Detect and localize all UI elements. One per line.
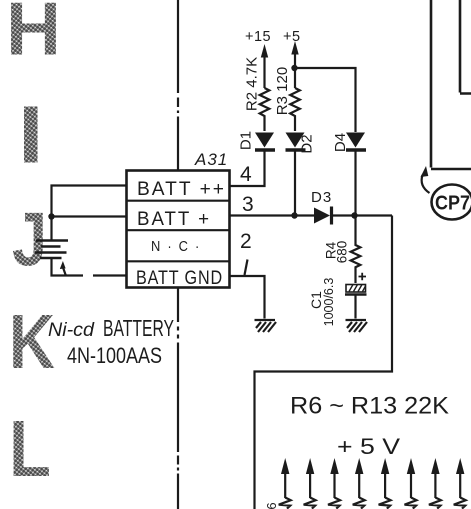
svg-text:BATT ++: BATT ++ bbox=[137, 179, 226, 200]
svg-text:3: 3 bbox=[242, 193, 254, 216]
connector A31 outline bbox=[127, 171, 230, 288]
label D1 bbox=[238, 131, 255, 150]
connector pin label BATT GND bbox=[136, 268, 223, 289]
power +5 bbox=[283, 29, 301, 45]
svg-text:4: 4 bbox=[240, 163, 252, 186]
pin number 2 bbox=[240, 230, 252, 253]
label R6 (partial, rotated) bbox=[264, 502, 279, 509]
svg-text:2: 2 bbox=[240, 230, 252, 253]
capacitor C1 bbox=[345, 285, 367, 295]
capacitor C1 plus mark bbox=[359, 273, 367, 280]
junction dot battery bbox=[48, 213, 54, 219]
label R2 4.7K bbox=[244, 57, 261, 111]
label R3 120 bbox=[274, 67, 291, 115]
module boundary dash-dot line (lower) bbox=[177, 288, 179, 509]
wire D2 to pin3 net bbox=[294, 151, 296, 216]
label D2 bbox=[299, 134, 316, 153]
junction dot D4/D3 bbox=[351, 212, 357, 218]
battery BT1 Ni-cd plates bbox=[35, 241, 68, 259]
grid row label L bbox=[9, 404, 51, 493]
pin number 3 bbox=[242, 193, 254, 216]
label D4 bbox=[332, 133, 349, 152]
label C1 1000/6.3 bbox=[308, 278, 336, 327]
wire battery negative to BATT GND bbox=[52, 259, 127, 276]
ground (C1) bbox=[346, 320, 368, 332]
pin number 1 bbox=[245, 260, 248, 276]
connector pin label BATT ++ bbox=[137, 179, 226, 200]
power arrow +15 bbox=[261, 44, 268, 88]
resistor R3 bbox=[290, 88, 300, 131]
svg-text:680: 680 bbox=[335, 241, 350, 264]
wire pin4 to D1 branch bbox=[230, 151, 265, 186]
resistor R2 bbox=[260, 88, 270, 131]
wire D4 to junction bbox=[354, 151, 356, 216]
svg-text:D2: D2 bbox=[299, 134, 316, 153]
svg-text:R2 4.7K: R2 4.7K bbox=[244, 57, 261, 111]
svg-text:+15: +15 bbox=[245, 29, 271, 45]
resistor R4 bbox=[351, 216, 361, 284]
upper-right block outer corner bbox=[431, 0, 471, 169]
grid row label J bbox=[12, 198, 47, 283]
label D3 bbox=[311, 189, 332, 206]
svg-text:+5: +5 bbox=[283, 29, 301, 45]
wire right vertical down and across to bottom bbox=[255, 216, 393, 509]
svg-text:R6 ~ R13 22K: R6 ~ R13 22K bbox=[290, 393, 449, 420]
power +15 bbox=[245, 29, 271, 45]
battery positive wire to BATT++ bbox=[52, 186, 127, 240]
label Ni-cd BATTERY bbox=[48, 315, 174, 341]
resistor array R6-R13 pull-up arrows bbox=[279, 458, 466, 509]
wire pin3 to D3 anode bbox=[230, 214, 315, 216]
wire D3 cathode to right corner bbox=[333, 214, 392, 216]
svg-text:BATTERY: BATTERY bbox=[103, 315, 174, 341]
diode D3 bbox=[314, 207, 332, 225]
label 4N-100AAS bbox=[67, 343, 162, 368]
wire +5 to D4 branch bbox=[295, 68, 356, 132]
annotation arrow at battery bbox=[60, 261, 66, 276]
svg-text:4N-100AAS: 4N-100AAS bbox=[67, 343, 162, 368]
diode D4 bbox=[346, 133, 366, 151]
label R4 680 bbox=[324, 241, 350, 264]
test point CP7 bbox=[432, 185, 471, 220]
connector pin label BATT + bbox=[137, 209, 211, 230]
svg-text:BATT +: BATT + bbox=[137, 209, 211, 230]
label A31 bbox=[194, 150, 228, 169]
connector row separators bbox=[127, 201, 230, 262]
svg-text:D1: D1 bbox=[238, 131, 255, 150]
svg-text:H: H bbox=[6, 0, 61, 71]
svg-text:A31: A31 bbox=[194, 150, 228, 169]
grid row label H bbox=[6, 0, 61, 71]
grid row label I bbox=[24, 107, 38, 163]
wire C1 to ground bbox=[354, 295, 356, 319]
svg-text:6: 6 bbox=[264, 502, 279, 509]
svg-text:Ni-cd: Ni-cd bbox=[48, 320, 95, 341]
svg-text:R3 120: R3 120 bbox=[274, 67, 291, 115]
pin number 4 bbox=[240, 163, 252, 186]
label +5V bbox=[337, 434, 400, 459]
annotation curved arrow to CP7 corner bbox=[421, 166, 430, 193]
wire pin1 to ground bbox=[230, 276, 265, 319]
label R6~R13 22K bbox=[290, 393, 449, 420]
power arrow +5 bbox=[291, 41, 298, 88]
junction dot D2/pin3 bbox=[291, 212, 297, 218]
svg-text:L: L bbox=[9, 404, 51, 493]
svg-text:BATT GND: BATT GND bbox=[136, 268, 223, 289]
svg-text:CP7: CP7 bbox=[435, 193, 470, 215]
svg-text:+ 5 V: + 5 V bbox=[337, 434, 400, 459]
junction dot +5 branch bbox=[291, 65, 297, 71]
svg-text:N · C ·: N · C · bbox=[151, 238, 201, 255]
connector pin label N.C. bbox=[151, 238, 201, 255]
module boundary dash-dot line (upper) bbox=[177, 0, 179, 170]
svg-text:K: K bbox=[9, 299, 55, 385]
svg-text:1000/6.3: 1000/6.3 bbox=[322, 278, 336, 327]
diode D1 bbox=[255, 133, 275, 151]
svg-text:D4: D4 bbox=[332, 133, 349, 152]
grid row label K bbox=[9, 299, 55, 385]
ground (pin1) bbox=[255, 320, 277, 332]
diode D2 bbox=[286, 133, 306, 151]
wire battery tap to BATT+ bbox=[52, 215, 127, 217]
upper-right block inner corner bbox=[460, 0, 471, 94]
svg-text:D3: D3 bbox=[311, 189, 332, 206]
